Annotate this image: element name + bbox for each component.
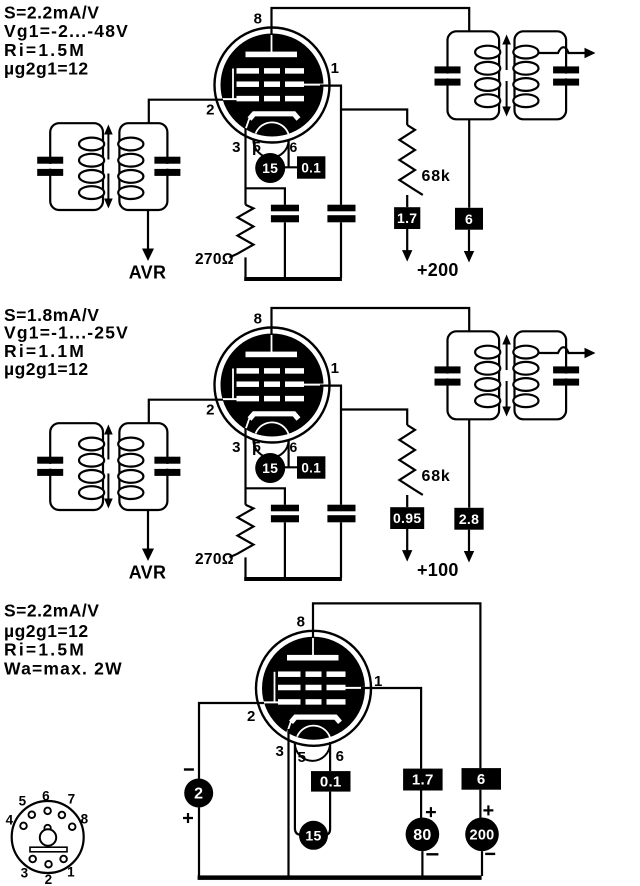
- wire heater pin6 to 0.1 box: [285, 141, 297, 168]
- ground rail (V3): [198, 875, 482, 880]
- capacitor output primary tuning: [443, 74, 451, 79]
- wire 200 disc to rail: [481, 851, 483, 876]
- plus sign (80): [426, 807, 436, 817]
- capacitor cathode bypass: [271, 205, 299, 212]
- value box 0.1: [297, 456, 325, 478]
- wire heater pin5: [253, 141, 255, 156]
- wire AVR return: [147, 210, 149, 249]
- value box 6: [455, 208, 483, 230]
- resistor 68k (V2 screen feed): [399, 425, 422, 495]
- supply arrow under 2.8: [468, 530, 470, 552]
- value disc 15: [255, 453, 285, 483]
- coupling adjust arrow (output): [506, 344, 508, 371]
- svg-text:5: 5: [253, 139, 261, 155]
- supply arrow under 1.7: [406, 229, 408, 251]
- svg-text:6: 6: [289, 139, 297, 155]
- wire 80 disc to rail: [421, 851, 423, 876]
- socket pin 2: [45, 861, 52, 868]
- wire pin1 of V2 down to screen bypass cap: [320, 386, 341, 505]
- capacitor screen bypass: [327, 205, 355, 212]
- socket pin 8: [69, 823, 76, 830]
- svg-text:1: 1: [331, 360, 340, 377]
- IF output transformer secondary loop (V1): [515, 31, 567, 119]
- coupling adjust arrow: [107, 433, 109, 460]
- IF output transformer secondary loop (V2): [515, 331, 567, 419]
- svg-text:200: 200: [469, 827, 494, 843]
- value box 1.7: [394, 207, 420, 229]
- socket pin 1: [60, 856, 67, 863]
- svg-text:15: 15: [262, 460, 278, 476]
- svg-text:80: 80: [413, 827, 431, 844]
- svg-text:Ri=1.1M: Ri=1.1M: [4, 341, 86, 361]
- arrow output: [585, 48, 596, 59]
- svg-text:0.1: 0.1: [320, 773, 342, 790]
- capacitor output primary tuning: [443, 374, 451, 379]
- arrow AVR: [142, 549, 154, 562]
- ground rail: [244, 577, 342, 581]
- svg-text:4: 4: [6, 813, 14, 828]
- value box 0.95: [390, 507, 424, 529]
- svg-text:0.95: 0.95: [393, 510, 421, 526]
- svg-text:µg2g1=12: µg2g1=12: [4, 359, 89, 379]
- svg-text:2: 2: [247, 708, 256, 725]
- wire 0.1 box to 15 disc: [325, 792, 330, 835]
- svg-text:5: 5: [298, 749, 307, 766]
- capacitor cathode bypass: [271, 505, 299, 512]
- svg-text:8: 8: [254, 311, 263, 328]
- value disc 15: [255, 153, 285, 183]
- value box 0.1: [297, 156, 325, 178]
- svg-text:1: 1: [374, 673, 383, 690]
- svg-text:S=2.2mA/V: S=2.2mA/V: [4, 601, 99, 621]
- svg-text:µg2g1=12: µg2g1=12: [4, 59, 89, 79]
- value box 0.1 (V3): [311, 771, 351, 792]
- wire cathode branch to bypass cap: [246, 188, 285, 204]
- wire pin3 cathode down: [244, 128, 246, 205]
- svg-text:6: 6: [477, 771, 486, 788]
- svg-text:5: 5: [253, 439, 261, 455]
- spec text block circuit 1: [4, 2, 129, 78]
- svg-text:Vg1=-2...-48V: Vg1=-2...-48V: [4, 21, 129, 41]
- arrow output: [585, 348, 596, 359]
- IF input transformer primary loop (V1): [50, 123, 103, 210]
- IF input transformer secondary loop (V1): [119, 123, 167, 210]
- svg-text:1: 1: [331, 60, 340, 77]
- arrow AVR: [142, 249, 154, 262]
- svg-text:7: 7: [68, 792, 76, 807]
- svg-text:8: 8: [81, 812, 89, 827]
- minus sign (2): [184, 768, 194, 770]
- wire cathode branch to bypass cap: [246, 488, 285, 504]
- plus sign (2): [183, 813, 193, 823]
- socket key boss: [44, 825, 50, 831]
- wire AVR return: [147, 510, 149, 549]
- spec text block circuit 3: [4, 601, 123, 679]
- wire 1.7 box to 80 disc: [420, 791, 422, 819]
- wire pin8 of V2 to output transformer primary: [272, 308, 470, 335]
- wire heater pin5 V3 to 15 disc: [295, 742, 301, 835]
- capacitor input secondary tuning: [163, 164, 171, 169]
- IF input transformer secondary loop (V2): [119, 423, 167, 510]
- wire pin2 of V2 to input transformer secondary: [149, 400, 223, 424]
- capacitor input primary tuning: [46, 464, 54, 469]
- wire 68k to voltage box: [406, 495, 408, 507]
- wire 68k to voltage box: [406, 195, 408, 207]
- svg-text:µg2g1=12: µg2g1=12: [4, 621, 89, 641]
- svg-text:6: 6: [289, 439, 297, 455]
- IF output transformer primary loop (V2): [448, 331, 500, 419]
- resistor 68k (V1 screen feed): [399, 125, 422, 195]
- spec text block circuit 2: [4, 305, 129, 379]
- svg-text:15: 15: [305, 827, 321, 843]
- svg-text:68k: 68k: [422, 168, 451, 185]
- capacitor input primary tuning: [46, 164, 54, 169]
- wire pin2 of V1 to input transformer secondary: [149, 100, 223, 124]
- svg-text:+100: +100: [417, 560, 459, 580]
- svg-text:1: 1: [67, 865, 75, 880]
- tube socket base diagram outline: [12, 801, 84, 873]
- socket pin 6: [44, 808, 51, 815]
- svg-text:Ri=1.5M: Ri=1.5M: [4, 40, 86, 60]
- svg-text:1.7: 1.7: [412, 772, 434, 789]
- wire heater pin6 to 0.1 box: [285, 441, 297, 468]
- svg-text:6: 6: [336, 748, 345, 765]
- svg-text:3: 3: [232, 439, 241, 456]
- socket pin 7: [59, 812, 66, 819]
- value disc 15 (V3): [299, 821, 328, 850]
- svg-text:8: 8: [297, 614, 306, 631]
- plus sign (200): [483, 805, 493, 815]
- svg-text:6: 6: [42, 789, 50, 804]
- coupling adjust arrow: [107, 133, 109, 160]
- resistor 270 ohm (cathode bias): [230, 505, 254, 558]
- wire pin1 V3 to 1.7 box column: [361, 688, 421, 769]
- value box 6 (V3): [462, 768, 502, 790]
- capacitor input secondary tuning: [163, 464, 171, 469]
- pentode tube V1 (envelope): [215, 28, 330, 158]
- ground rail: [244, 277, 342, 281]
- socket center spigot: [40, 829, 56, 845]
- resistor 270 ohm (cathode bias): [230, 205, 254, 258]
- svg-text:0.1: 0.1: [301, 461, 321, 476]
- value box 1.7 (V3): [403, 769, 443, 791]
- capacitor output secondary tuning: [562, 74, 570, 79]
- svg-text:8: 8: [254, 11, 263, 28]
- svg-text:3: 3: [21, 866, 29, 881]
- coupling adjust arrow (output): [506, 44, 508, 71]
- svg-text:270Ω: 270Ω: [195, 551, 234, 568]
- svg-text:3: 3: [275, 743, 284, 760]
- svg-text:AVR: AVR: [129, 263, 167, 283]
- wire screen node to 68k resistor: [341, 410, 407, 426]
- svg-text:5: 5: [19, 794, 27, 809]
- wire output transformer primary bottom to supply box: [468, 119, 470, 208]
- wire output tap with hop: [538, 347, 585, 353]
- wire 2 disc to rail: [198, 808, 200, 877]
- value disc 80: [406, 818, 440, 852]
- socket pin 5: [29, 811, 36, 818]
- wire output transformer primary bottom to supply box: [468, 419, 470, 508]
- capacitor output secondary tuning: [562, 374, 570, 379]
- IF input transformer primary loop (V2): [50, 423, 103, 510]
- wire pin1 of V1 down to screen bypass cap: [320, 86, 341, 205]
- svg-text:Ri=1.5M: Ri=1.5M: [4, 640, 86, 660]
- wire pin2 V3 to 2 disc column: [199, 703, 264, 779]
- svg-text:2: 2: [206, 402, 215, 419]
- value disc 2: [184, 779, 213, 808]
- svg-text:S=2.2mA/V: S=2.2mA/V: [4, 2, 99, 22]
- svg-text:68k: 68k: [422, 468, 451, 485]
- svg-text:3: 3: [232, 139, 241, 156]
- minus sign (80): [426, 853, 438, 855]
- wire pin3 V3 to rail: [287, 729, 289, 876]
- supply arrow under 0.95: [406, 529, 408, 551]
- value disc 200: [465, 818, 499, 852]
- svg-text:+200: +200: [417, 260, 459, 280]
- socket slot bar: [30, 847, 67, 852]
- svg-text:2: 2: [194, 786, 203, 803]
- svg-text:2: 2: [206, 102, 215, 119]
- svg-text:270Ω: 270Ω: [195, 251, 234, 268]
- svg-text:2.8: 2.8: [459, 511, 479, 527]
- svg-text:15: 15: [262, 160, 278, 176]
- svg-text:6: 6: [465, 211, 473, 227]
- socket pin 3: [29, 856, 36, 863]
- wire pin3 cathode down: [244, 428, 246, 505]
- svg-text:Wa=max. 2W: Wa=max. 2W: [4, 659, 123, 679]
- svg-text:0.1: 0.1: [301, 161, 321, 176]
- wire heater pin5: [253, 441, 255, 456]
- svg-text:AVR: AVR: [129, 563, 167, 583]
- capacitor screen bypass: [327, 505, 355, 512]
- svg-text:Vg1=-1...-25V: Vg1=-1...-25V: [4, 323, 129, 343]
- svg-text:2: 2: [45, 872, 53, 886]
- svg-text:1.7: 1.7: [397, 210, 417, 226]
- wire screen node to 68k resistor: [341, 110, 407, 126]
- wire output tap with hop: [538, 47, 585, 53]
- minus sign (200): [485, 853, 495, 855]
- wire heater pin6 V3 to 0.1 box: [329, 742, 331, 771]
- wire 6 box to 200 disc: [479, 790, 481, 818]
- pentode tube V2 (envelope): [215, 328, 330, 458]
- socket pin 4: [20, 823, 27, 830]
- value box 2.8: [454, 508, 483, 530]
- IF output transformer primary loop (V1): [448, 31, 500, 119]
- wire pin8 V3 to 6 box column: [313, 603, 480, 768]
- pentode tube V3 (envelope): [256, 631, 371, 761]
- wire pin8 of V1 to output transformer primary: [272, 8, 470, 35]
- supply arrow under 6: [468, 230, 470, 252]
